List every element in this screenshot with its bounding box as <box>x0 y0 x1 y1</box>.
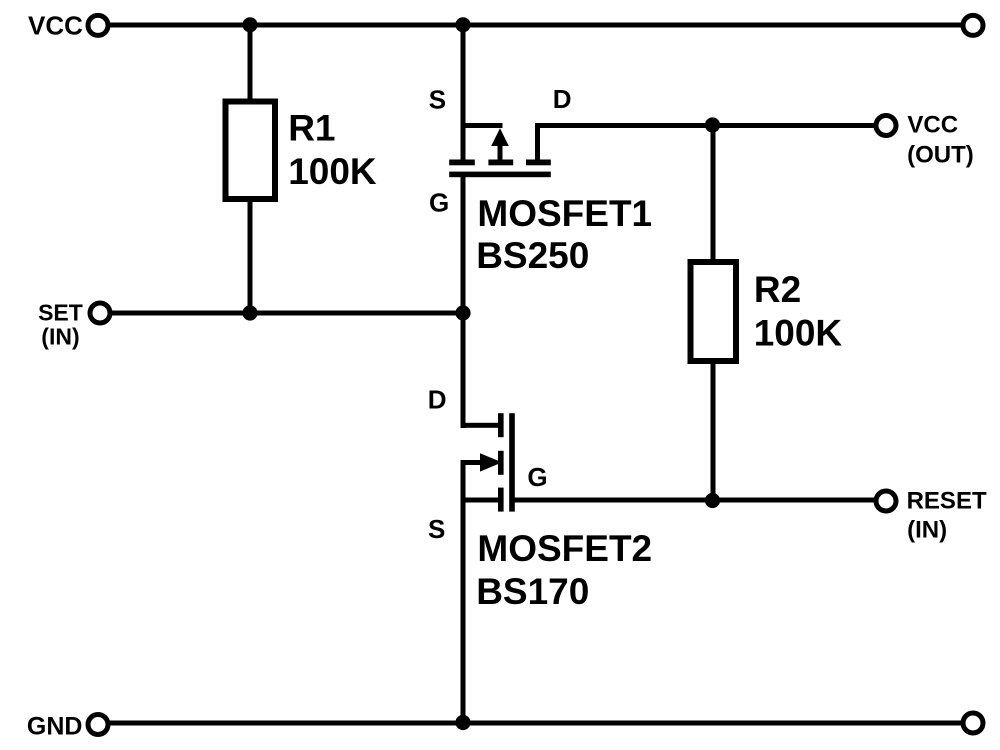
svg-text:R1: R1 <box>288 108 335 149</box>
svg-text:G: G <box>429 187 449 217</box>
wire MOSFET1 drain stub <box>535 123 540 162</box>
transistor MOSFET2 channel bar source segment <box>498 488 504 512</box>
svg-text:MOSFET1: MOSFET1 <box>477 193 652 234</box>
wire MOSFET2 drain jog <box>461 423 501 428</box>
wire MOSFET1 drain to VCC out <box>535 123 876 128</box>
wire MOSFET1 source branch <box>461 123 503 128</box>
junction node VCC-R1 <box>242 17 257 32</box>
svg-text:S: S <box>428 514 445 544</box>
transistor MOSFET1 bulk arrow <box>491 128 509 146</box>
wire MOSFET2 source vertical <box>461 462 466 723</box>
svg-text:BS170: BS170 <box>476 571 589 612</box>
wire SET input <box>110 311 463 316</box>
svg-text:SET: SET <box>38 300 83 326</box>
resistor R2 <box>691 262 737 361</box>
wire MOSFET2 source jog <box>461 498 501 503</box>
transistor MOSFET1 channel bar source segment <box>449 160 475 166</box>
terminal VCC output <box>876 116 896 136</box>
wire VCC top rail <box>108 23 963 28</box>
svg-text:(IN): (IN) <box>907 516 947 543</box>
junction node SET-R1 <box>242 305 257 320</box>
terminal GND right <box>963 713 983 733</box>
svg-text:100K: 100K <box>754 313 843 354</box>
transistor MOSFET2 bulk arrow <box>480 453 502 471</box>
svg-text:(IN): (IN) <box>41 324 79 350</box>
transistor MOSFET2 gate bar <box>509 413 515 511</box>
terminal SET input <box>90 303 110 323</box>
wire MOSFET1 source vertical <box>461 25 466 162</box>
svg-text:BS250: BS250 <box>476 235 589 276</box>
svg-text:R2: R2 <box>754 269 801 310</box>
transistor MOSFET2 channel bar bulk segment <box>498 451 504 475</box>
wire MOSFET1 gate to MOSFET2 drain vertical <box>461 177 466 428</box>
wire MOSFET1 bulk stub <box>498 143 503 162</box>
transistor MOSFET2 channel bar drain segment <box>498 413 504 437</box>
transistor MOSFET1 channel bar bulk segment <box>488 160 513 166</box>
junction node VCC-MOSFET1 source <box>455 17 470 32</box>
resistor R1 <box>226 102 276 200</box>
junction node drain-R2 <box>705 117 720 132</box>
wire MOSFET2 bulk line <box>461 460 482 465</box>
terminal RESET input <box>876 491 896 511</box>
junction node RESET-R2 <box>705 493 720 508</box>
wire MOSFET2 gate to RESET <box>512 498 876 503</box>
svg-text:GND: GND <box>27 712 83 740</box>
svg-text:D: D <box>428 385 447 415</box>
svg-text:D: D <box>553 84 572 114</box>
svg-text:VCC: VCC <box>907 112 958 139</box>
svg-text:G: G <box>527 462 547 492</box>
wire R2 bottom stub <box>711 364 716 500</box>
svg-text:RESET: RESET <box>907 488 987 515</box>
svg-text:MOSFET2: MOSFET2 <box>477 528 652 569</box>
svg-text:VCC: VCC <box>28 10 83 40</box>
terminal VCC top left <box>88 15 108 35</box>
junction node GND-MOSFET2 source <box>455 715 470 730</box>
svg-text:(OUT): (OUT) <box>907 141 974 168</box>
junction node SET-gate <box>455 305 470 320</box>
terminal VCC top right <box>963 15 983 35</box>
svg-text:S: S <box>429 85 446 115</box>
transistor MOSFET1 channel bar drain segment <box>526 160 551 166</box>
wire GND bottom rail <box>108 721 963 726</box>
wire R1 top stub <box>248 25 253 99</box>
transistor MOSFET1 gate bar <box>449 172 551 178</box>
terminal GND left <box>88 715 108 735</box>
svg-text:100K: 100K <box>288 151 377 192</box>
wire R1 bottom stub <box>248 202 253 313</box>
wire R2 top stub <box>711 125 716 259</box>
